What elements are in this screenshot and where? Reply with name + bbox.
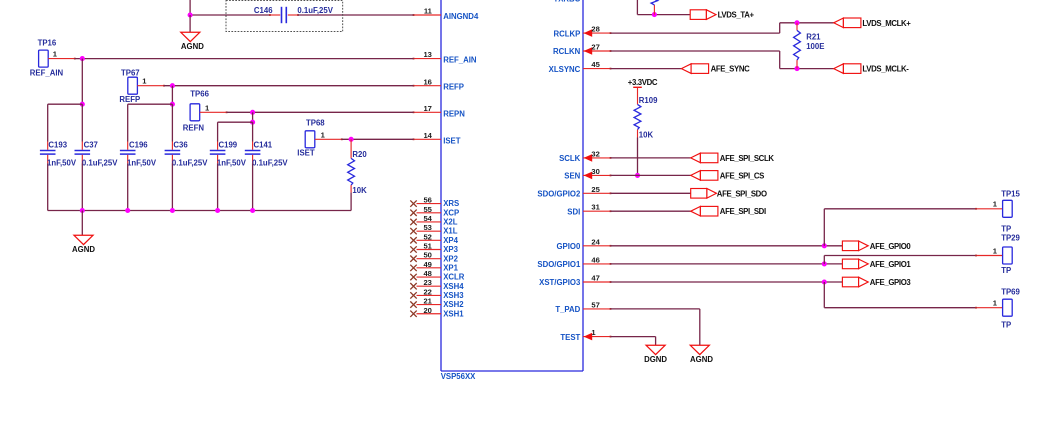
svg-text:1nF,50V: 1nF,50V (47, 158, 77, 167)
svg-text:TP66: TP66 (190, 90, 209, 99)
svg-text:C141: C141 (254, 141, 273, 150)
pin 28 RCLKP (553, 25, 611, 39)
wire net LVDS_TA from top (636, 0, 638, 15)
label C199 value 1nF,50V (217, 158, 247, 167)
wire C196 bottom to rail (127, 163, 129, 210)
svg-text:57: 57 (591, 300, 599, 309)
label R21 value 100E (806, 42, 824, 51)
op-amp U1 VSP56XX IC body outline (441, 0, 583, 371)
svg-text:C196: C196 (129, 141, 148, 150)
wire AGND drop from AINGND4 (189, 15, 191, 32)
wire net RCLKN dropper (779, 51, 781, 69)
wire REPN down to cap pair (252, 112, 254, 122)
pin 1 TEST (560, 328, 611, 342)
port AFE_SPI_SDI (691, 206, 766, 216)
svg-text:XSH3: XSH3 (443, 291, 464, 300)
port LVDS_MCLK+ (834, 18, 912, 28)
wire net XLSYNC to port (611, 68, 682, 70)
wire C146 to pin 11 (298, 14, 414, 16)
pin 23 XSH4 (no-connect) (410, 278, 464, 291)
pin 52 XP4 (no-connect) (410, 232, 458, 245)
svg-text:DGND: DGND (644, 355, 667, 364)
wire net LVDS_MCLK- to port (780, 68, 834, 70)
wire REFP cap pair connector (128, 103, 173, 105)
wire net SDO/GPIO2 to port (611, 192, 691, 194)
junction REF_AIN cap pair (80, 102, 85, 107)
pin 53 X1L (no-connect) (410, 223, 457, 236)
label C141 value 0.1uF,25V (252, 158, 288, 167)
wire C37 top branch (81, 104, 83, 141)
junction GPIO0 TP15 tap (822, 243, 827, 248)
svg-text:10K: 10K (352, 186, 367, 195)
svg-text:AFE_SPI_SCLK: AFE_SPI_SCLK (720, 154, 775, 163)
wire net AINGND4 vertical from top (189, 0, 191, 15)
svg-text:56: 56 (423, 196, 431, 205)
wire net GPIO3 (611, 281, 843, 283)
svg-text:0.1uF,25V: 0.1uF,25V (297, 6, 333, 15)
wire TP29 branch horizontal (824, 255, 976, 257)
svg-text:TP68: TP68 (306, 118, 325, 127)
svg-text:45: 45 (591, 60, 600, 69)
ground AGND (top left) (181, 32, 204, 51)
testpoint TP69 (975, 288, 1020, 330)
port AFE_SYNC (681, 64, 750, 74)
svg-text:53: 53 (423, 223, 431, 232)
svg-text:50: 50 (423, 251, 431, 260)
svg-text:REFP: REFP (443, 83, 464, 92)
svg-text:AFE_SYNC: AFE_SYNC (711, 65, 751, 74)
svg-text:51: 51 (423, 242, 432, 251)
svg-text:AGND: AGND (690, 355, 713, 364)
wire C199 top branch (217, 122, 219, 141)
svg-text:LVDS_TA+: LVDS_TA+ (718, 11, 755, 20)
wire net LVDS_MCLK+ to port (780, 22, 834, 24)
junction GPIO1 TP29 tap (822, 261, 827, 266)
svg-text:1nF,50V: 1nF,50V (217, 158, 247, 167)
svg-text:AFE_SPI_SDI: AFE_SPI_SDI (720, 207, 766, 216)
IC U1 value label VSP56XX (441, 372, 476, 381)
svg-text:XSH4: XSH4 (443, 282, 464, 291)
svg-text:XP4: XP4 (443, 236, 458, 245)
svg-text:TP15: TP15 (1001, 190, 1020, 199)
wire net AINGND4 to C146 left (190, 14, 270, 16)
svg-text:SEN: SEN (564, 172, 580, 181)
testpoint TP29 (975, 233, 1020, 275)
pin 25 SDO/GPIO2 (537, 185, 611, 199)
wire REFP down to cap pair (171, 86, 173, 105)
label R109 refdes (639, 96, 658, 105)
ground AGND (bottom) (690, 345, 713, 364)
label C146 refdes (254, 6, 273, 15)
wire net REFP to pin 16 (164, 85, 414, 87)
wire net RCLKP horizontal (611, 32, 780, 34)
svg-text:52: 52 (423, 232, 431, 241)
wire net TEST drop (655, 337, 657, 346)
pin 21 XSH2 (no-connect) (410, 297, 464, 310)
junction GPIO3 TP69 tap (822, 279, 827, 284)
wire net RCLKN horizontal (611, 50, 780, 52)
label C193 refdes (48, 141, 67, 150)
svg-text:REFN: REFN (183, 124, 205, 133)
svg-text:17: 17 (423, 104, 431, 113)
testpoint TP67 (119, 68, 165, 104)
wire net SDI to port (611, 210, 691, 212)
svg-text:X2L: X2L (443, 218, 458, 227)
svg-text:REPN: REPN (443, 109, 465, 118)
svg-text:47: 47 (591, 274, 599, 283)
label R21 refdes (806, 32, 821, 41)
svg-text:C37: C37 (84, 141, 98, 150)
pin 14 ISET (413, 131, 461, 145)
junction R109 SEN (635, 173, 640, 178)
capacitor C141 (245, 142, 261, 164)
capacitor C193 (40, 142, 56, 164)
svg-text:25: 25 (591, 185, 600, 194)
label R20 value 10K (352, 186, 367, 195)
svg-text:XP2: XP2 (443, 254, 458, 263)
junction rail C196 (125, 208, 130, 213)
wire AGND rail (48, 210, 351, 212)
pin 30 SEN (564, 167, 611, 181)
wire REF_AIN down to cap pair (81, 59, 83, 105)
wire net ISET to pin 14 (342, 138, 414, 140)
wire net REPN to pin 17 (227, 111, 414, 113)
svg-text:TP16: TP16 (38, 39, 57, 48)
wire REF_AIN cap pair connector (48, 103, 83, 105)
pin 31 SDI (567, 203, 611, 217)
wire C193 bottom to rail (47, 163, 49, 210)
svg-text:AFE_SPI_SDO: AFE_SPI_SDO (717, 189, 767, 198)
junction LVDS_TA resistor tap (652, 12, 657, 17)
pin 51 XP3 (no-connect) (410, 242, 458, 255)
wire AGND rail drop (81, 211, 83, 236)
pin 46 SDO/GPIO1 (537, 255, 611, 269)
pin 20 XSH1 (no-connect) (410, 306, 464, 319)
wire net T_PAD horizontal (611, 308, 700, 310)
label C196 refdes (129, 141, 148, 150)
svg-text:48: 48 (423, 269, 431, 278)
wire C36 bottom to rail (171, 163, 173, 210)
wire C37 bottom to rail (81, 163, 83, 210)
junction LVDS_MCLK+ at R21 (794, 20, 799, 25)
pin 45 XLSYNC (549, 60, 612, 74)
svg-text:28: 28 (591, 25, 599, 34)
testpoint TP15 (975, 190, 1020, 234)
capacitor C199 (210, 142, 226, 164)
pin 47 XST/GPIO3 (539, 274, 611, 288)
wire TP69 branch horizontal (824, 307, 976, 309)
wire net TEST horizontal (611, 336, 656, 338)
svg-text:R21: R21 (806, 32, 821, 41)
svg-text:TP69: TP69 (1001, 288, 1020, 297)
junction LVDS_MCLK- at R21 (794, 66, 799, 71)
label C141 refdes (254, 141, 273, 150)
svg-text:13: 13 (423, 50, 431, 59)
pin 27 RCLKN (553, 43, 611, 57)
svg-text:REFP: REFP (119, 95, 140, 104)
label R109 value 10K (639, 130, 654, 139)
pin 56 XRS (no-connect) (410, 196, 459, 209)
svg-text:49: 49 (423, 260, 431, 269)
ground DGND (644, 345, 667, 364)
svg-text:TP29: TP29 (1001, 233, 1020, 242)
wire net SCLK to port (611, 157, 691, 159)
label R20 refdes (352, 150, 367, 159)
svg-text:14: 14 (423, 131, 432, 140)
label C36 refdes (173, 141, 188, 150)
wire TP15 branch horizontal (824, 208, 976, 210)
IC U1 clipped pin name TXRBC at top edge (553, 0, 580, 3)
svg-text:46: 46 (591, 255, 599, 264)
wire TP69 branch vertical (823, 282, 825, 308)
junction rail C36 (170, 208, 175, 213)
label C36 value 0.1uF,25V (172, 158, 208, 167)
svg-text:RCLKN: RCLKN (553, 47, 581, 56)
svg-text:11: 11 (424, 7, 433, 16)
ground AGND (left) (72, 235, 95, 254)
wire TP15 branch vertical (823, 209, 825, 246)
svg-text:21: 21 (423, 297, 432, 306)
svg-text:XP3: XP3 (443, 245, 458, 254)
svg-text:TXRBC: TXRBC (553, 0, 580, 3)
port AFE_GPIO1 (842, 259, 911, 269)
svg-text:TEST: TEST (560, 333, 580, 342)
pin 57 T_PAD (555, 300, 611, 314)
label C37 refdes (84, 141, 98, 150)
pin 55 XCP (no-connect) (410, 205, 459, 218)
svg-text:0.1uF,25V: 0.1uF,25V (252, 158, 288, 167)
svg-text:55: 55 (423, 205, 432, 214)
svg-text:1nF,50V: 1nF,50V (127, 158, 157, 167)
svg-text:R109: R109 (639, 96, 658, 105)
junction rail C141 (250, 208, 255, 213)
svg-text:31: 31 (591, 203, 600, 212)
power +3.3VDC (628, 78, 658, 88)
junction rail C199 (215, 208, 220, 213)
svg-text:TP: TP (1001, 266, 1011, 275)
capacitor C146 (269, 7, 299, 23)
pin 24 GPIO0 (556, 237, 611, 251)
svg-text:SDO/GPIO1: SDO/GPIO1 (537, 260, 581, 269)
svg-text:22: 22 (423, 287, 431, 296)
resistor R109 (634, 87, 641, 137)
junction net AINGND4 at AGND tap (188, 12, 193, 17)
capacitor C37 (75, 142, 91, 164)
svg-text:AFE_GPIO0: AFE_GPIO0 (870, 242, 912, 251)
svg-text:XCP: XCP (443, 208, 459, 217)
testpoint TP16 (30, 39, 76, 78)
svg-text:0.1uF,25V: 0.1uF,25V (82, 158, 118, 167)
wire R20 bottom to rail (350, 193, 352, 211)
svg-text:XSH1: XSH1 (443, 309, 464, 318)
svg-text:23: 23 (423, 278, 431, 287)
svg-text:C199: C199 (219, 141, 238, 150)
junction net REF_AIN (80, 56, 85, 61)
label C146 value 0.1uF,25V (297, 6, 333, 15)
wire C141 top branch (252, 122, 254, 141)
pin 13 REF_AIN (413, 50, 477, 64)
capacitor C36 (165, 142, 181, 164)
pin 49 XP1 (no-connect) (410, 260, 458, 273)
port LVDS_MCLK- (834, 64, 910, 74)
testpoint TP66 (183, 90, 228, 133)
svg-text:27: 27 (591, 43, 599, 52)
svg-text:LVDS_MCLK-: LVDS_MCLK- (862, 65, 909, 74)
label C196 value 1nF,50V (127, 158, 157, 167)
pin 48 XCLR (no-connect) (410, 269, 464, 282)
junction net ISET at R20 (349, 137, 354, 142)
svg-text:24: 24 (591, 237, 600, 246)
svg-text:AINGND4: AINGND4 (443, 12, 479, 21)
svg-text:SCLK: SCLK (559, 154, 581, 163)
label C193 value 1nF,50V (47, 158, 77, 167)
svg-text:AFE_GPIO3: AFE_GPIO3 (870, 278, 912, 287)
wire TP29 branch vertical (823, 256, 825, 264)
svg-text:0.1uF,25V: 0.1uF,25V (172, 158, 208, 167)
svg-text:32: 32 (591, 149, 599, 158)
svg-text:VSP56XX: VSP56XX (441, 372, 476, 381)
svg-text:C193: C193 (48, 141, 67, 150)
svg-text:XP1: XP1 (443, 263, 458, 272)
junction REFP cap pair (170, 102, 175, 107)
junction REPN cap pair (250, 120, 255, 125)
wire net SEN to port (611, 174, 691, 176)
svg-text:+3.3VDC: +3.3VDC (628, 78, 658, 87)
testpoint TP68 (297, 118, 342, 157)
wire net RCLKP riser (779, 23, 781, 33)
junction net REPN (250, 110, 255, 115)
svg-text:C146: C146 (254, 6, 273, 15)
svg-text:SDI: SDI (567, 207, 580, 216)
pin 11 AINGND4 (413, 7, 479, 21)
pin 16 REFP (413, 77, 464, 91)
svg-text:C36: C36 (173, 141, 188, 150)
junction rail C37 (80, 208, 85, 213)
svg-text:TP: TP (1001, 321, 1011, 330)
resistor R21 (794, 23, 801, 69)
wire C36 top branch (171, 104, 173, 141)
port AFE_SPI_SCLK (691, 153, 775, 163)
label C199 refdes (219, 141, 238, 150)
svg-text:RCLKP: RCLKP (553, 29, 580, 38)
pin 32 SCLK (559, 149, 611, 163)
wire REPN cap pair connector (218, 121, 253, 123)
svg-text:X1L: X1L (443, 227, 458, 236)
svg-text:ISET: ISET (443, 136, 461, 145)
pin 54 X2L (no-connect) (410, 214, 457, 227)
svg-text:30: 30 (591, 167, 599, 176)
wire R109 to SEN (637, 138, 639, 176)
wire C193 top branch (47, 104, 49, 141)
wire net T_PAD drop (699, 309, 701, 345)
resistor R20 (348, 139, 355, 192)
svg-text:ISET: ISET (297, 149, 315, 158)
svg-text:LVDS_MCLK+: LVDS_MCLK+ (862, 19, 911, 28)
pin 17 REPN (413, 104, 466, 118)
port AFE_GPIO0 (842, 241, 911, 251)
svg-text:XST/GPIO3: XST/GPIO3 (539, 278, 581, 287)
junction net REFP (170, 83, 175, 88)
svg-text:XLSYNC: XLSYNC (549, 65, 581, 74)
wire C196 top branch (127, 104, 129, 141)
svg-text:XSH2: XSH2 (443, 300, 464, 309)
svg-text:AGND: AGND (72, 245, 95, 254)
svg-text:XCLR: XCLR (443, 273, 465, 282)
svg-text:XRS: XRS (443, 199, 459, 208)
wire net GPIO0 (611, 245, 843, 247)
port AFE_SPI_SDO (691, 189, 767, 199)
svg-text:GPIO0: GPIO0 (556, 242, 580, 251)
svg-text:20: 20 (423, 306, 431, 315)
svg-text:T_PAD: T_PAD (555, 305, 580, 314)
svg-text:REF_AIN: REF_AIN (30, 68, 64, 77)
wire C199 bottom to rail (217, 163, 219, 210)
svg-text:R20: R20 (352, 150, 367, 159)
svg-text:TP67: TP67 (121, 68, 140, 77)
wire net REF_AIN to pin 13 (75, 58, 414, 60)
svg-text:REF_AIN: REF_AIN (443, 56, 477, 65)
dashed DNP box around C146 (226, 1, 343, 32)
svg-text:54: 54 (423, 214, 432, 223)
svg-text:AGND: AGND (181, 42, 204, 51)
svg-text:16: 16 (423, 77, 431, 86)
port LVDS_TA+ (690, 10, 754, 20)
svg-text:AFE_SPI_CS: AFE_SPI_CS (720, 171, 764, 180)
wire net GPIO1 (611, 263, 843, 265)
port AFE_GPIO3 (842, 277, 911, 287)
svg-text:SDO/GPIO2: SDO/GPIO2 (537, 190, 581, 199)
label C37 value 0.1uF,25V (82, 158, 118, 167)
port AFE_SPI_CS (691, 171, 764, 181)
capacitor C196 (120, 142, 136, 164)
pin 50 XP2 (no-connect) (410, 251, 458, 264)
svg-text:10K: 10K (639, 130, 654, 139)
resistor (clipped at top edge) (651, 0, 658, 15)
pin 22 XSH3 (no-connect) (410, 287, 464, 300)
wire net LVDS_TA to port (637, 14, 690, 16)
svg-text:AFE_GPIO1: AFE_GPIO1 (870, 260, 912, 269)
svg-text:100E: 100E (806, 42, 824, 51)
wire C141 bottom to rail (252, 163, 254, 210)
